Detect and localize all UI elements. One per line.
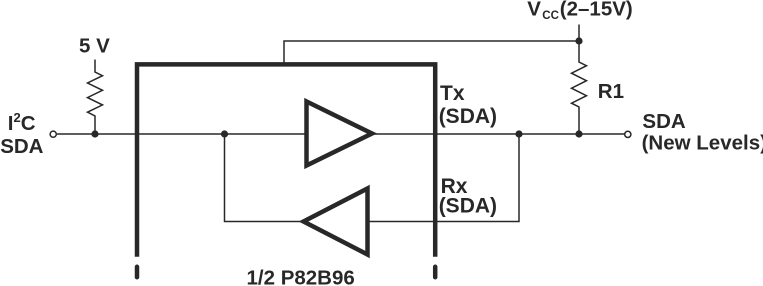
label: I2C SDA (left terminal name) (0, 110, 43, 158)
IC outline: right dash (bottom continuation) (433, 267, 438, 277)
wire: Rx feedback (from left junction down and right to Rx output tip) (225, 134, 302, 222)
svg-text:Tx: Tx (440, 82, 465, 105)
svg-text:SDA: SDA (642, 110, 685, 133)
wire: Vcc supply rail (down from label, across to box top) (284, 25, 579, 63)
node: junction dot at Vcc rail / R1 top (575, 37, 582, 44)
svg-text:(New Levels): (New Levels) (642, 132, 763, 155)
terminal: SDA New Levels (open circle) (625, 131, 631, 137)
IC outline: left dash (bottom continuation) (135, 267, 140, 277)
label: SDA (New Levels) right terminal name (642, 110, 763, 155)
label: R1 (598, 80, 624, 103)
wire: main SDA line (Tx buffer output to right terminal) (372, 133, 625, 135)
op-amp: Tx buffer (triangle pointing right) (307, 102, 373, 166)
svg-text:(SDA): (SDA) (439, 195, 497, 218)
svg-text:1/2 P82B96: 1/2 P82B96 (247, 266, 355, 286)
svg-text:(SDA): (SDA) (439, 105, 497, 128)
svg-text:SDA: SDA (0, 135, 43, 158)
svg-text:5 V: 5 V (79, 35, 110, 58)
IC outline: 1/2 P82B96 (thick open-bottom box) (137, 64, 435, 256)
wire: main SDA line (left section, terminal to Tx buffer input) (57, 133, 307, 135)
svg-text:I2C: I2C (8, 110, 36, 135)
node: junction dot at R1 bottom / SDA (575, 130, 582, 137)
svg-text:R1: R1 (598, 80, 624, 103)
label: 1/2 P82B96 (IC name) (247, 266, 355, 286)
node: junction dot at 5V pull-up / SDA (91, 130, 98, 137)
node: junction dot at Rx feedback tap (left) (221, 130, 228, 137)
resistor R1 (572, 41, 587, 134)
resistor: 5V pull-up (88, 60, 103, 135)
wire: Rx input (from Rx buffer right edge to right junction, up to SDA) (368, 134, 519, 222)
op-amp: Rx buffer (triangle pointing left) (304, 189, 368, 255)
label: Vcc (2-15V) (527, 0, 632, 22)
label: Rx (SDA) pin (439, 175, 497, 218)
label: Tx (SDA) pin (439, 82, 497, 128)
node: junction dot at Rx sense tap (right) (515, 130, 522, 137)
terminal: I2C SDA (open circle) (50, 131, 56, 137)
label: 5 V (79, 35, 110, 58)
svg-text:VCC(2–15V): VCC(2–15V) (527, 0, 632, 22)
